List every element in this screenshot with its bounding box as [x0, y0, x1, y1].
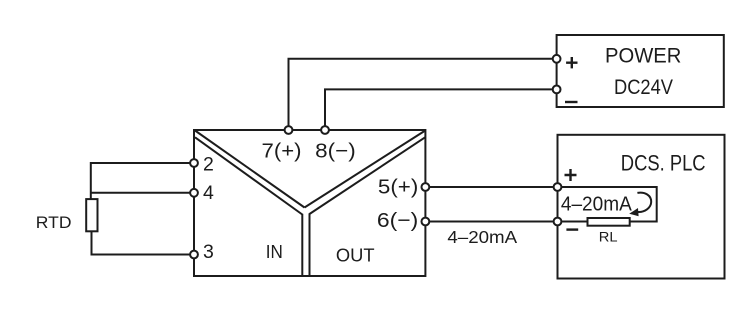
isolation barrier right inner diagonal [310, 137, 426, 214]
isolation barrier right vertical line [309, 213, 311, 276]
svg-text:RTD: RTD [36, 214, 72, 232]
wire RTD bottom to terminal3 [92, 231, 195, 254]
terminal 5 circle [422, 183, 430, 191]
terminal 4 circle [190, 189, 198, 197]
svg-text:8(−): 8(−) [315, 139, 356, 162]
POWER box [557, 35, 724, 107]
svg-text:5(+): 5(+) [378, 175, 418, 198]
DCS PLC box [558, 135, 725, 279]
isolation barrier right outer diagonal [305, 131, 426, 208]
wire terminal7 to POWER plus [289, 59, 557, 130]
current direction arrowhead [629, 208, 638, 216]
wire terminal2 to RTD top [91, 163, 194, 199]
svg-text:POWER: POWER [605, 45, 681, 68]
wire terminal4 junction [91, 192, 194, 194]
DCS minus sign [566, 228, 578, 230]
terminal 8 circle [321, 126, 329, 134]
svg-text:3: 3 [203, 241, 214, 263]
svg-text:7(+): 7(+) [262, 139, 302, 162]
svg-text:4–20mA: 4–20mA [447, 227, 517, 247]
svg-text:DCS. PLC: DCS. PLC [621, 151, 706, 176]
terminal 3 circle [190, 251, 198, 259]
DCS plus sign [565, 169, 577, 181]
POWER plus sign [566, 57, 577, 68]
svg-text:4–20mA: 4–20mA [561, 194, 633, 216]
svg-text:6(−): 6(−) [377, 209, 418, 232]
wire RL to DCS minus [558, 221, 588, 223]
terminal 7 circle [285, 126, 293, 134]
svg-text:IN: IN [266, 242, 283, 262]
svg-text:OUT: OUT [336, 244, 375, 265]
svg-text:2: 2 [203, 153, 214, 175]
current direction arrow arc [637, 193, 651, 212]
isolation barrier left outer diagonal [195, 131, 305, 208]
svg-text:4: 4 [203, 182, 214, 204]
DCS minus terminal circle [554, 218, 562, 226]
wire terminal8 to POWER minus [325, 89, 557, 130]
resistor RTD [86, 199, 97, 231]
POWER minus terminal circle [553, 86, 561, 94]
svg-text:DC24V: DC24V [614, 76, 673, 99]
isolation barrier left vertical line [301, 214, 303, 276]
wire terminal6 to DCS minus [425, 221, 557, 223]
POWER plus terminal circle [553, 55, 561, 63]
POWER minus sign [565, 101, 578, 103]
DCS plus terminal circle [554, 183, 562, 191]
wire DCS loop top and right [558, 187, 657, 222]
isolation barrier left inner diagonal [195, 137, 302, 214]
terminal 2 circle [190, 159, 198, 167]
resistor RL [588, 218, 630, 226]
terminal 6 circle [422, 218, 430, 226]
svg-text:RL: RL [599, 229, 618, 245]
wire terminal5 to DCS plus [425, 186, 557, 188]
isolator module U1 body [194, 130, 425, 276]
